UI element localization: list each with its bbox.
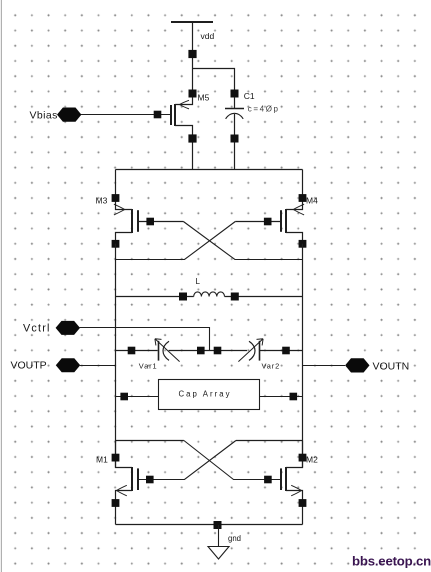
svg-text:vdd: vdd bbox=[201, 31, 215, 41]
transistor M4 (PMOS) bbox=[281, 170, 304, 249]
wire Vbias to M5 gate bbox=[81, 114, 171, 116]
svg-text:M4: M4 bbox=[306, 195, 318, 205]
junction M5 drain node bbox=[188, 134, 196, 142]
junction cap array left bbox=[120, 393, 128, 401]
wire VOUTP to left rail bbox=[80, 365, 116, 367]
junction gnd tap bbox=[214, 521, 222, 529]
svg-text:VOUTP: VOUTP bbox=[11, 359, 47, 371]
svg-text:C1: C1 bbox=[244, 91, 255, 101]
transistor M1 (NMOS) bbox=[116, 441, 139, 525]
pin square M1 gate bbox=[146, 476, 154, 484]
svg-text:Vctrl: Vctrl bbox=[23, 323, 51, 335]
junction C1 bottom node bbox=[231, 135, 239, 143]
svg-text:L: L bbox=[196, 277, 201, 286]
junction L right bbox=[231, 293, 239, 301]
svg-text:M2: M2 bbox=[306, 454, 318, 464]
pin square M3 gate bbox=[146, 218, 154, 226]
svg-text:Var2: Var2 bbox=[262, 362, 281, 371]
wire VOUTN to right rail bbox=[303, 365, 346, 367]
wire bottom rail bbox=[116, 524, 303, 526]
wire top rail PMOS pair bbox=[116, 169, 303, 171]
port VOUTN bbox=[345, 358, 369, 372]
wire left rail bbox=[115, 244, 117, 468]
wire cross diagonal M3 gate to M4 drain bbox=[183, 222, 302, 260]
transistor M3 (PMOS) bbox=[114, 170, 138, 249]
svg-text:Var1: Var1 bbox=[139, 362, 158, 371]
varactor Var2 bbox=[238, 339, 263, 362]
power symbol vdd bbox=[171, 22, 213, 90]
junction L left bbox=[179, 293, 187, 301]
svg-text:Vbias: Vbias bbox=[30, 110, 58, 122]
junction M1 source bbox=[112, 499, 120, 507]
svg-text:Cap Array: Cap Array bbox=[179, 389, 230, 398]
wire cap array row left bbox=[116, 396, 159, 398]
port Vctrl bbox=[56, 321, 80, 335]
svg-text:bbs.eetop.cn: bbs.eetop.cn bbox=[352, 554, 431, 569]
schematic window left border bbox=[1, 0, 2, 572]
junction cap array right bbox=[290, 393, 298, 401]
junction varactor row right bbox=[282, 347, 290, 355]
wire vdd branch to C1 bbox=[193, 69, 235, 91]
wire cross diagonal M1 gate to M2 drain bbox=[138, 441, 236, 480]
svg-text:c=4Øp: c=4Øp bbox=[248, 105, 280, 114]
junction C1 top node bbox=[231, 90, 239, 98]
wire M3 gate row bbox=[138, 221, 183, 223]
varactor Var1 bbox=[155, 339, 180, 362]
junction varactor row left bbox=[128, 347, 136, 355]
wire gnd stem bbox=[218, 525, 220, 547]
junction M2 source bbox=[299, 499, 307, 507]
pin square M2 gate bbox=[264, 476, 272, 484]
port VOUTP bbox=[56, 358, 80, 372]
ground symbol bbox=[208, 547, 229, 560]
transistor M5 (PMOS) bbox=[171, 97, 193, 169]
svg-text:gnd: gnd bbox=[228, 534, 241, 543]
svg-text:VOUTN: VOUTN bbox=[373, 360, 410, 372]
junction M3 drain bbox=[112, 240, 120, 248]
svg-text:M1: M1 bbox=[96, 454, 108, 464]
pin square M4 gate bbox=[264, 218, 272, 226]
wire right rail bbox=[302, 244, 304, 468]
junction M2 drain bbox=[299, 454, 307, 462]
inductor L bbox=[194, 292, 225, 297]
junction M4 drain bbox=[299, 240, 307, 248]
wire cross diagonal M2 gate to M1 drain bbox=[184, 441, 281, 480]
wire inductor row bbox=[116, 296, 303, 298]
wire NMOS top row right bbox=[236, 440, 303, 442]
transistor M2 (NMOS) bbox=[281, 441, 303, 525]
junction Var2 cathode bbox=[214, 347, 222, 355]
wire cap array row right bbox=[260, 396, 303, 398]
pin square M5 gate bbox=[154, 111, 162, 119]
junction M4 source bbox=[299, 194, 307, 202]
junction on vdd stem bbox=[188, 50, 196, 58]
wire varactor row bbox=[116, 350, 303, 352]
wire Vctrl to varactor center bbox=[80, 328, 210, 351]
junction M5 source node bbox=[189, 90, 197, 98]
capacitor C1 bbox=[225, 97, 244, 169]
svg-text:M3: M3 bbox=[96, 195, 108, 205]
junction M3 source bbox=[112, 194, 120, 202]
junction Var1 cathode bbox=[197, 347, 205, 355]
block Cap Array bbox=[159, 380, 260, 410]
junction M1 drain bbox=[112, 454, 120, 462]
wire NMOS top row left bbox=[116, 440, 184, 442]
wire cross diagonal M4 gate to M3 drain bbox=[116, 222, 236, 260]
port Vbias bbox=[57, 108, 81, 122]
svg-text:M5: M5 bbox=[198, 93, 210, 103]
wire M4 gate row bbox=[235, 221, 281, 223]
